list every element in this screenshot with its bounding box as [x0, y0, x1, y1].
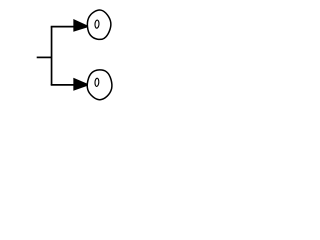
wire: left stub	[37, 56, 52, 58]
wire: top horizontal segment	[51, 26, 74, 28]
label 0 (top inner oval)	[95, 20, 100, 28]
node 0 (bottom circle)	[87, 70, 112, 100]
arrowhead A1 (top)	[73, 19, 87, 32]
arrowhead A2 (bottom)	[73, 78, 87, 91]
wire: bottom horizontal segment	[51, 84, 74, 86]
wire: vertical branch trunk	[51, 27, 53, 85]
node 0 (top circle)	[87, 10, 110, 39]
label 0 (bottom inner oval)	[95, 78, 99, 86]
